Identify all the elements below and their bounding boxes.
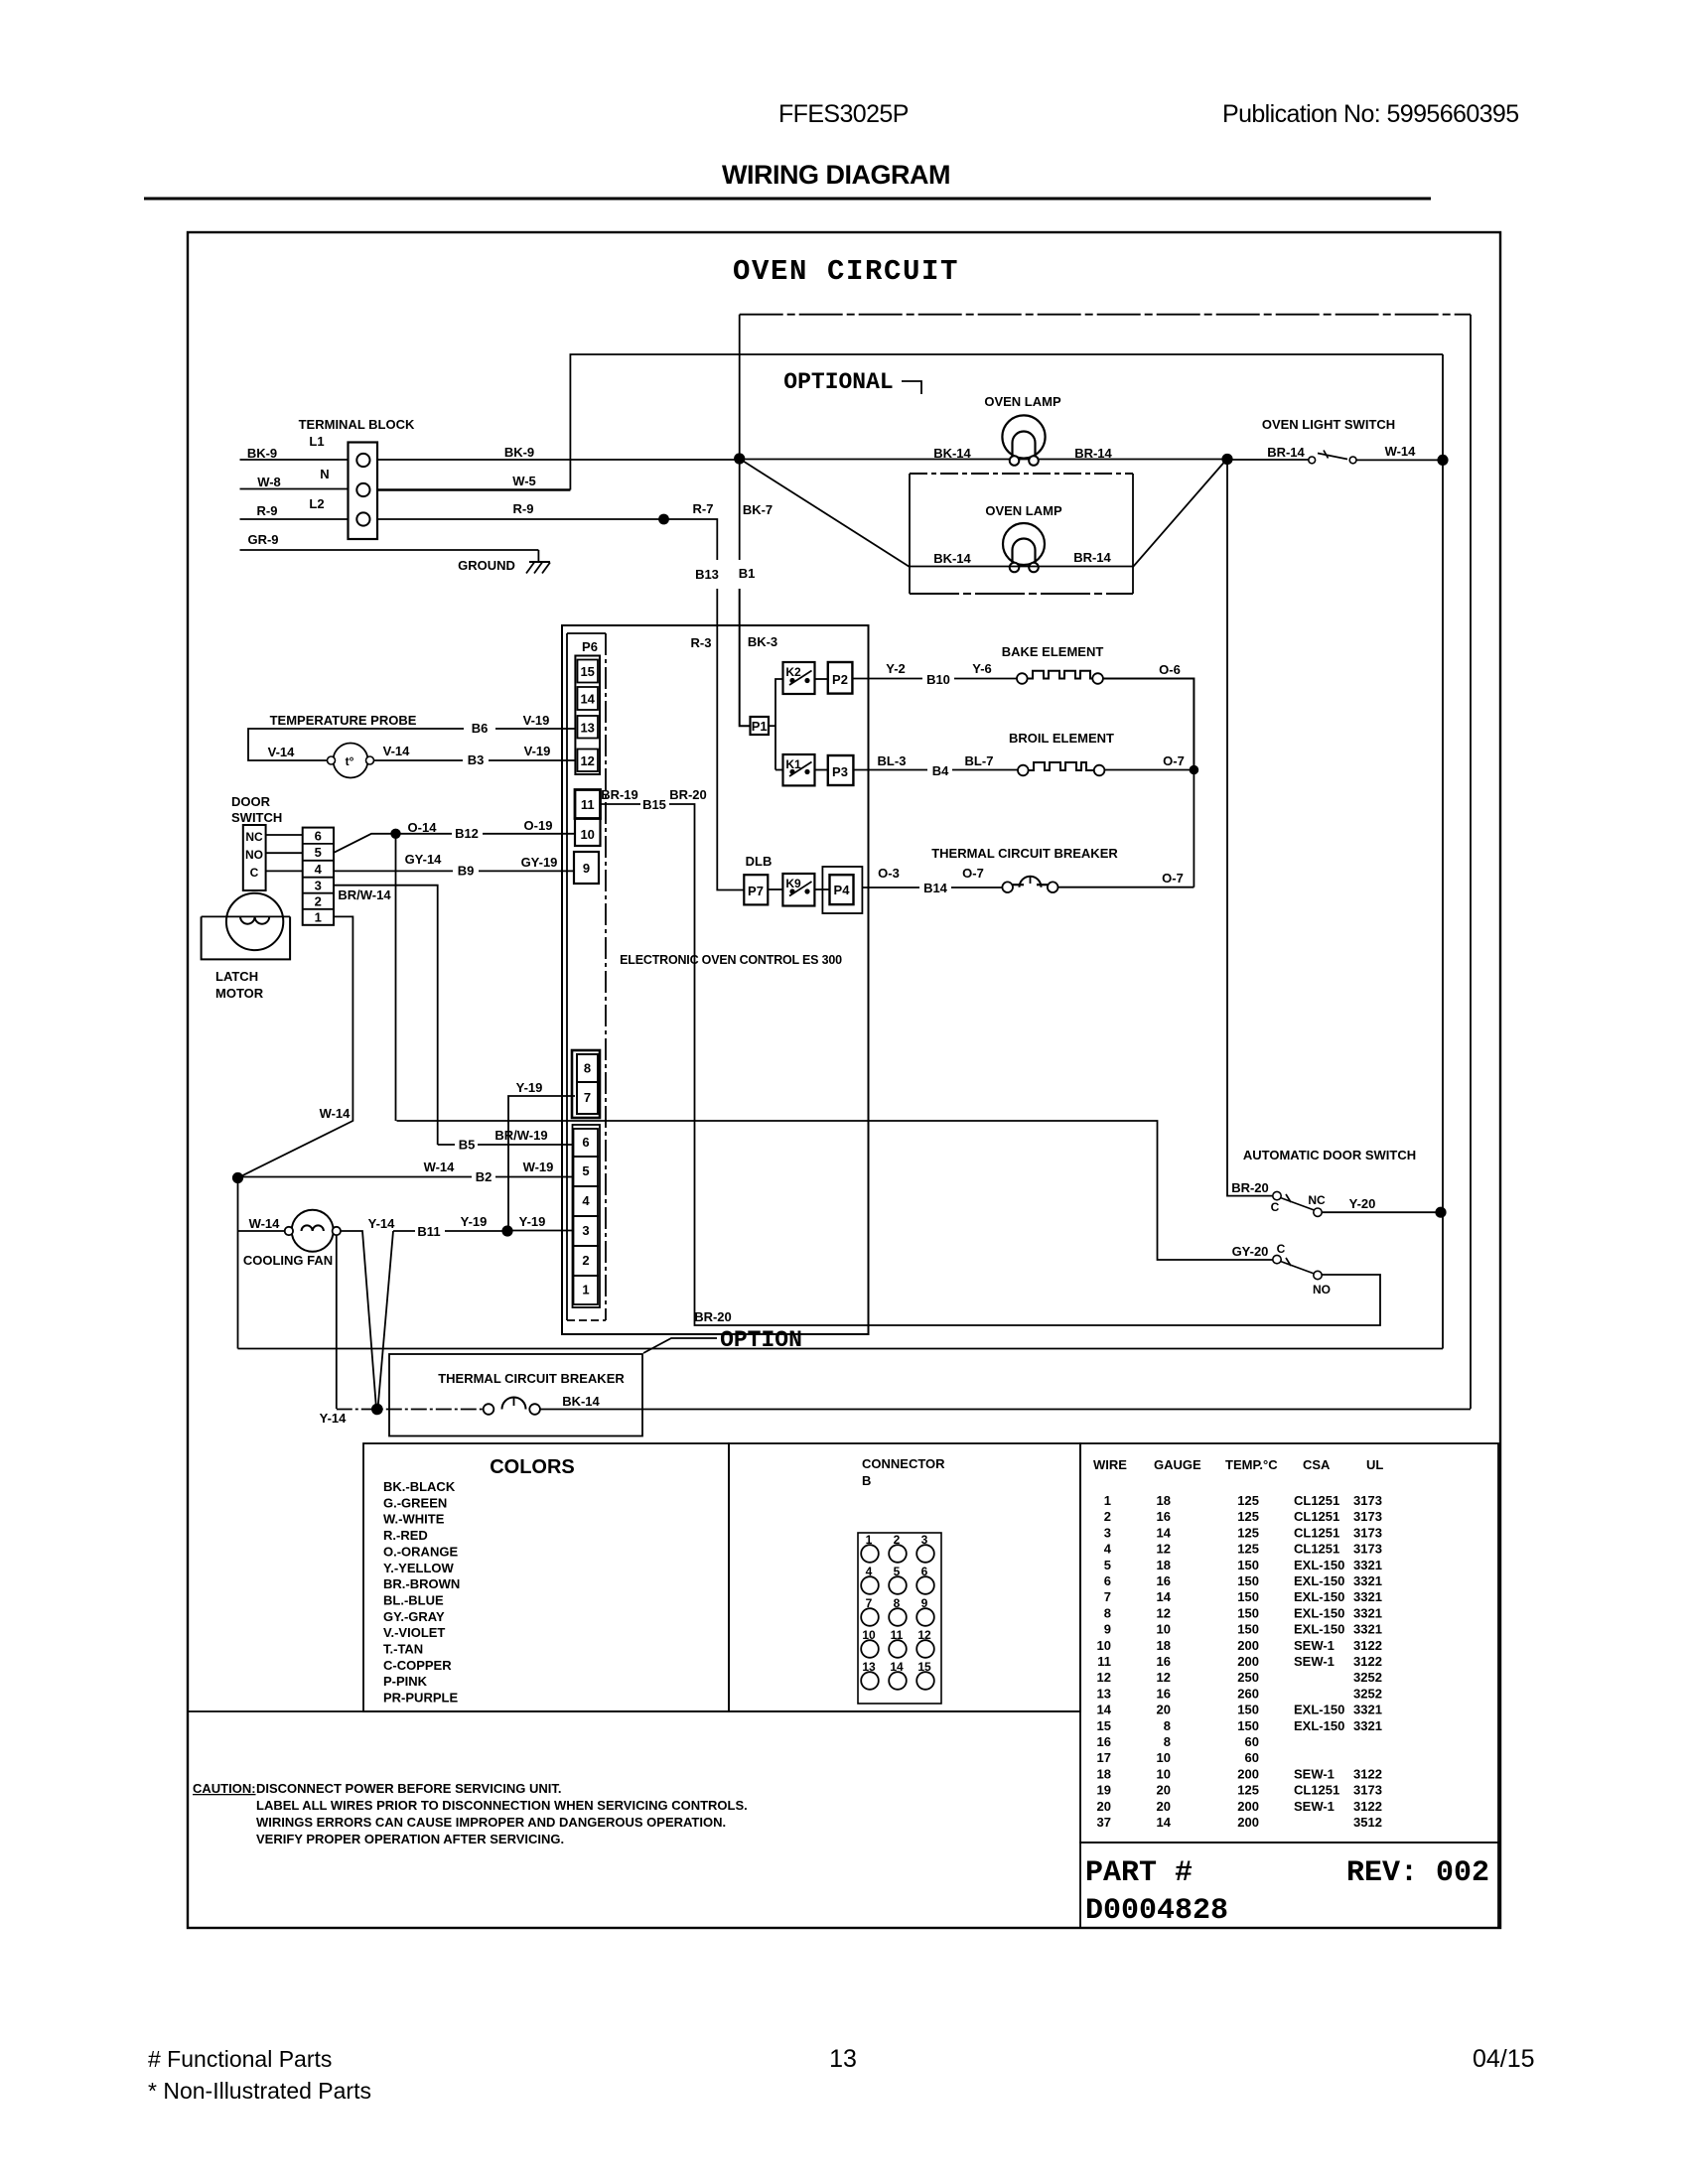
svg-text:Publication No: 5995660395: Publication No: 5995660395 (1222, 100, 1519, 128)
svg-text:14: 14 (1157, 1525, 1172, 1540)
svg-text:P2: P2 (832, 672, 848, 687)
svg-text:t°: t° (346, 754, 354, 768)
relay connector P7 (744, 875, 768, 904)
svg-text:B12: B12 (455, 826, 479, 841)
wire W-14 right trunk (1442, 354, 1444, 1349)
svg-text:COLORS: COLORS (490, 1456, 575, 1478)
svg-text:10: 10 (1097, 1638, 1111, 1653)
svg-text:Y.-YELLOW: Y.-YELLOW (383, 1561, 455, 1575)
svg-text:Y-14: Y-14 (368, 1216, 396, 1231)
svg-text:BK-9: BK-9 (247, 446, 277, 461)
svg-text:3122: 3122 (1353, 1654, 1382, 1669)
svg-text:2: 2 (582, 1253, 589, 1268)
svg-text:GY-14: GY-14 (405, 852, 443, 867)
wire GY-20 feed from door switch circuit (397, 1121, 1273, 1260)
svg-text:B14: B14 (923, 881, 948, 895)
svg-text:THERMAL CIRCUIT BREAKER: THERMAL CIRCUIT BREAKER (438, 1371, 625, 1386)
svg-text:60: 60 (1245, 1734, 1259, 1749)
wire W-14 to cooling fan (238, 1216, 285, 1231)
svg-text:BR-20: BR-20 (669, 787, 707, 802)
svg-text:BROIL ELEMENT: BROIL ELEMENT (1009, 731, 1114, 746)
OPTION loop right edge wire (1470, 315, 1472, 1409)
door switch (231, 794, 282, 890)
wire O-14 to connector B12 (400, 833, 452, 835)
svg-text:SEW-1: SEW-1 (1294, 1638, 1335, 1653)
svg-text:18: 18 (1157, 1638, 1171, 1653)
svg-text:EXL-150: EXL-150 (1294, 1558, 1344, 1572)
door switch connector strip pins 6-1 (303, 828, 334, 925)
svg-text:60: 60 (1245, 1750, 1259, 1765)
svg-text:BK-14: BK-14 (933, 551, 971, 566)
wire BR/W-14 from pin 3 (334, 886, 438, 1145)
svg-text:14: 14 (1157, 1589, 1172, 1604)
svg-text:150: 150 (1237, 1703, 1259, 1717)
relay K2 bake (783, 662, 815, 694)
svg-text:B10: B10 (926, 672, 950, 687)
automatic door switch (1231, 1148, 1416, 1297)
wire Y-19 to connector B11 (393, 1230, 415, 1232)
wire K2 to P2 (815, 678, 828, 680)
svg-text:UL: UL (1366, 1457, 1383, 1472)
svg-text:18: 18 (1157, 1493, 1171, 1508)
wire GY-19 from B9 to P6 pin 9 (479, 855, 574, 871)
P6 pins 8-7 group outline (572, 1050, 600, 1118)
svg-text:O-3: O-3 (878, 866, 900, 881)
wire Y-14 from fan to V branch (341, 1216, 395, 1409)
P6 pin 5 (574, 1157, 599, 1186)
svg-text:CAUTION:: CAUTION: (193, 1781, 256, 1796)
svg-text:20: 20 (1157, 1703, 1171, 1717)
svg-text:9: 9 (1104, 1622, 1111, 1637)
svg-text:12: 12 (1097, 1670, 1111, 1685)
svg-text:125: 125 (1237, 1525, 1259, 1540)
svg-text:3173: 3173 (1353, 1542, 1382, 1557)
wire O-7 node down to thermal circuit breaker (1193, 770, 1195, 887)
svg-text:1: 1 (1104, 1493, 1111, 1508)
svg-text:OPTIONAL: OPTIONAL (783, 369, 893, 395)
svg-text:O-6: O-6 (1159, 662, 1181, 677)
svg-text:3: 3 (315, 879, 322, 893)
svg-text:150: 150 (1237, 1718, 1259, 1733)
svg-text:Y-19: Y-19 (461, 1214, 488, 1229)
svg-text:CONNECTOR: CONNECTOR (862, 1456, 945, 1471)
svg-text:4: 4 (582, 1193, 590, 1208)
svg-text:200: 200 (1237, 1799, 1259, 1814)
svg-text:BR-20: BR-20 (694, 1309, 732, 1324)
svg-text:BR-20: BR-20 (1231, 1180, 1269, 1195)
P6 pin 10 (575, 819, 601, 847)
wire gauge table box (1080, 1443, 1498, 1843)
svg-text:R-7: R-7 (693, 501, 714, 516)
svg-text:R.-RED: R.-RED (383, 1528, 428, 1543)
svg-text:P4: P4 (834, 883, 851, 897)
svg-text:LABEL ALL WIRES PRIOR TO DISCO: LABEL ALL WIRES PRIOR TO DISCONNECTION W… (256, 1798, 748, 1813)
bake element (1002, 644, 1104, 684)
svg-text:150: 150 (1237, 1558, 1259, 1572)
wire O-14 diagonal from pin 5 (334, 820, 437, 853)
broil element (1009, 731, 1114, 775)
wire Y-14 fan drop leg (336, 1235, 338, 1409)
svg-text:B13: B13 (695, 567, 719, 582)
node Y-19 junction at pin 3 (501, 1225, 512, 1236)
node Y-14 junction (371, 1404, 383, 1416)
svg-text:Y-6: Y-6 (972, 661, 992, 676)
svg-text:20: 20 (1157, 1783, 1171, 1798)
wire W-19 from B2 to P6 pin 5 (495, 1160, 574, 1177)
wire R-3 from connector B13 down to relay P7 (691, 589, 745, 890)
wire O-7 from B14 to thermal circuit breaker (951, 866, 1002, 887)
thermal circuit breaker (931, 846, 1118, 892)
wire BK-9 from supply L1 to terminal block (240, 446, 349, 461)
svg-text:ELECTRONIC OVEN CONTROL ES 300: ELECTRONIC OVEN CONTROL ES 300 (620, 953, 842, 967)
relay contact P2 (828, 662, 853, 694)
svg-text:5: 5 (315, 845, 322, 860)
svg-text:BK-3: BK-3 (748, 634, 777, 649)
wire Y-19 junction to P6 pin 3 (507, 1214, 574, 1231)
svg-text:BR-19: BR-19 (601, 787, 638, 802)
svg-text:BR/W-19: BR/W-19 (494, 1128, 547, 1143)
svg-text:13: 13 (829, 2045, 857, 2073)
svg-text:L2: L2 (309, 496, 324, 511)
svg-text:THERMAL CIRCUIT BREAKER: THERMAL CIRCUIT BREAKER (931, 846, 1118, 861)
svg-text:T.-TAN: T.-TAN (383, 1642, 423, 1657)
svg-text:3173: 3173 (1353, 1493, 1382, 1508)
connector P6 strip outline (567, 633, 606, 1320)
wire BK-14 from breaker to option loop (540, 1409, 1471, 1411)
svg-text:NC: NC (1308, 1193, 1326, 1207)
wire K1 to P3 (815, 769, 828, 771)
oven lamp 1 (984, 394, 1061, 466)
svg-text:V-14: V-14 (383, 744, 411, 758)
svg-text:WIRING DIAGRAM: WIRING DIAGRAM (722, 160, 950, 190)
node W-14 junction (232, 1172, 243, 1183)
svg-text:OVEN LIGHT SWITCH: OVEN LIGHT SWITCH (1262, 417, 1395, 432)
svg-text:DISCONNECT POWER BEFORE SERVIC: DISCONNECT POWER BEFORE SERVICING UNIT. (256, 1781, 561, 1796)
svg-text:FFES3025P: FFES3025P (778, 100, 909, 128)
P6 pin 4 (574, 1186, 599, 1216)
svg-text:7: 7 (584, 1090, 591, 1105)
svg-text:TEMP.°C: TEMP.°C (1225, 1457, 1278, 1472)
svg-text:150: 150 (1237, 1573, 1259, 1588)
svg-text:19: 19 (1097, 1783, 1111, 1798)
wire Y-19 V branch up to B11 (378, 1231, 394, 1409)
P6 pin 9 (574, 852, 599, 884)
wire W-14 down-run to bottom rail (237, 1178, 239, 1349)
svg-text:3321: 3321 (1353, 1703, 1382, 1717)
svg-text:C: C (1271, 1200, 1280, 1214)
svg-text:12: 12 (1157, 1670, 1171, 1685)
svg-text:EXL-150: EXL-150 (1294, 1605, 1344, 1620)
svg-text:TERMINAL BLOCK: TERMINAL BLOCK (299, 417, 415, 432)
svg-text:P1: P1 (752, 719, 768, 734)
svg-text:200: 200 (1237, 1815, 1259, 1830)
wire Y-19 riser from P6 pin 7 (508, 1080, 575, 1231)
svg-text:250: 250 (1237, 1670, 1259, 1685)
wire Y-2 from P2 to connector B10 (852, 661, 922, 679)
relay contact P3 (828, 755, 854, 785)
svg-text:16: 16 (1157, 1573, 1171, 1588)
wire GR-9 ground lead (240, 532, 539, 562)
cooling fan motor (243, 1210, 341, 1268)
svg-text:MOTOR: MOTOR (215, 986, 264, 1001)
svg-text:125: 125 (1237, 1542, 1259, 1557)
svg-text:1: 1 (582, 1283, 589, 1297)
svg-text:12: 12 (1157, 1542, 1171, 1557)
svg-text:R-3: R-3 (691, 635, 712, 650)
svg-text:K9: K9 (785, 877, 801, 890)
svg-text:6: 6 (1104, 1573, 1111, 1588)
svg-text:B11: B11 (417, 1224, 440, 1239)
wire BL-3 from P3 to connector B4 (853, 753, 927, 770)
svg-text:6: 6 (315, 829, 322, 844)
svg-text:TEMPERATURE PROBE: TEMPERATURE PROBE (270, 713, 417, 728)
wire BK-14 / BR-14 through lamp 2 (910, 550, 1133, 567)
wire R-7 to connector B13 (664, 501, 718, 560)
svg-text:13: 13 (1097, 1686, 1111, 1701)
svg-text:Y-19: Y-19 (519, 1214, 546, 1229)
svg-text:EXL-150: EXL-150 (1294, 1573, 1344, 1588)
option thermal circuit breaker box (389, 1354, 642, 1436)
svg-text:BR.-BROWN: BR.-BROWN (383, 1576, 460, 1591)
svg-text:B2: B2 (476, 1169, 492, 1184)
svg-text:C: C (250, 866, 259, 880)
wire BK-14 lamp feed with labels (740, 446, 1309, 461)
P6 pins 6-1 group outline (573, 1125, 601, 1307)
svg-text:O-7: O-7 (1163, 753, 1185, 768)
svg-text:3173: 3173 (1353, 1525, 1382, 1540)
oven lamp 2 (985, 503, 1062, 572)
svg-text:D0004828: D0004828 (1085, 1894, 1228, 1928)
terminal block TB1 (299, 417, 415, 539)
svg-text:37: 37 (1097, 1815, 1111, 1830)
wire O-7 from thermal circuit breaker to broil node (1058, 871, 1195, 887)
wire BK-7 optional-box top edge (739, 315, 741, 459)
svg-text:BK-14: BK-14 (933, 446, 971, 461)
title underline rule (144, 198, 1431, 201)
svg-text:BK.-BLACK: BK.-BLACK (383, 1479, 456, 1494)
svg-text:W-5: W-5 (512, 474, 536, 488)
P6 pin 12 (578, 750, 599, 772)
OPTIONAL label with leader (783, 369, 921, 395)
svg-text:16: 16 (1097, 1734, 1111, 1749)
svg-text:150: 150 (1237, 1589, 1259, 1604)
svg-text:REV: 002: REV: 002 (1346, 1856, 1489, 1890)
svg-text:P-PINK: P-PINK (383, 1674, 428, 1689)
wire BK-9 from terminal block to node BK junction (377, 445, 740, 460)
svg-text:SWITCH: SWITCH (231, 810, 282, 825)
svg-text:150: 150 (1237, 1622, 1259, 1637)
svg-text:O-7: O-7 (962, 866, 984, 881)
svg-text:BR-14: BR-14 (1073, 550, 1111, 565)
svg-text:13: 13 (580, 721, 594, 736)
svg-text:5: 5 (582, 1163, 589, 1178)
svg-text:7: 7 (1104, 1589, 1111, 1604)
svg-text:CL1251: CL1251 (1294, 1493, 1339, 1508)
colors legend box (363, 1443, 729, 1711)
relay K9 DLB (782, 874, 814, 906)
wire Y-6 from B10 to bake element (954, 661, 1017, 679)
svg-text:20: 20 (1157, 1799, 1171, 1814)
latch motor (202, 893, 291, 1001)
svg-text:B4: B4 (932, 763, 949, 778)
svg-text:W-14: W-14 (320, 1106, 352, 1121)
svg-text:OVEN LAMP: OVEN LAMP (985, 503, 1062, 518)
svg-text:3321: 3321 (1353, 1718, 1382, 1733)
wire V-19 from B6 to P6 pin 13 (495, 713, 575, 729)
svg-text:2: 2 (1104, 1509, 1111, 1524)
svg-text:B9: B9 (458, 864, 475, 879)
svg-text:3173: 3173 (1353, 1509, 1382, 1524)
wire O-19 from B12 to P6 pin 10 (483, 818, 575, 834)
svg-text:GY-19: GY-19 (521, 855, 558, 870)
svg-text:B6: B6 (472, 721, 489, 736)
wire door switch NC to pin 6 (266, 834, 303, 836)
P6 pin 7 (577, 1082, 598, 1114)
svg-text:3321: 3321 (1353, 1558, 1382, 1572)
P6 pin 8 (577, 1054, 598, 1082)
svg-text:W.-WHITE: W.-WHITE (383, 1512, 445, 1527)
wire Y-19 from B11 to node (445, 1214, 502, 1231)
ground symbol (458, 558, 550, 574)
svg-text:P6: P6 (582, 639, 598, 654)
svg-text:W-8: W-8 (257, 475, 281, 489)
svg-text:* Non-Illustrated Parts: * Non-Illustrated Parts (148, 2078, 371, 2104)
svg-text:R-9: R-9 (513, 501, 534, 516)
svg-text:C: C (1277, 1242, 1286, 1256)
svg-text:G.-GREEN: G.-GREEN (383, 1495, 447, 1510)
svg-text:Y-14: Y-14 (320, 1411, 348, 1426)
wire relay branch riser (775, 679, 783, 770)
svg-text:B: B (862, 1473, 871, 1488)
wire V-19 from B3 to P6 pin 12 (489, 744, 575, 760)
wire BK-3 from connector B1 down to relay P1 (740, 589, 777, 726)
svg-text:L1: L1 (309, 434, 324, 449)
svg-text:12: 12 (1157, 1605, 1171, 1620)
wire O-6 from bake element to broil node (1103, 662, 1195, 765)
svg-text:BK-14: BK-14 (562, 1394, 600, 1409)
svg-text:3252: 3252 (1353, 1670, 1382, 1685)
svg-text:B15: B15 (642, 797, 666, 812)
wire O-7 broil element to node (1104, 753, 1194, 770)
svg-text:260: 260 (1237, 1686, 1259, 1701)
wire W-5 from terminal block to riser (377, 474, 570, 490)
svg-text:3122: 3122 (1353, 1799, 1382, 1814)
svg-text:WIRE: WIRE (1093, 1457, 1127, 1472)
P6 pin 2 (574, 1246, 599, 1276)
svg-text:V-19: V-19 (524, 744, 551, 758)
wire W-14 bottom rail to trunk (238, 1348, 1444, 1350)
svg-text:Y-20: Y-20 (1349, 1196, 1376, 1211)
svg-text:20: 20 (1097, 1799, 1111, 1814)
svg-text:11: 11 (581, 797, 595, 812)
svg-text:Y-19: Y-19 (516, 1080, 543, 1095)
svg-text:GY.-GRAY: GY.-GRAY (383, 1609, 445, 1624)
svg-text:PR-PURPLE: PR-PURPLE (383, 1691, 458, 1706)
svg-text:V.-VIOLET: V.-VIOLET (383, 1625, 445, 1640)
relay K1 broil (783, 754, 815, 785)
optional oven lamp 2 enclosure box (910, 473, 1133, 475)
node lamp circuit junction (1221, 454, 1232, 465)
svg-text:OVEN CIRCUIT: OVEN CIRCUIT (733, 255, 959, 288)
caution note box (188, 1711, 1080, 1846)
svg-text:5: 5 (1104, 1558, 1111, 1572)
svg-text:GR-9: GR-9 (247, 532, 278, 547)
svg-text:4: 4 (315, 862, 323, 877)
oven light switch (1262, 417, 1395, 464)
svg-text:150: 150 (1237, 1605, 1259, 1620)
wire BK-7 / B1 from junction down to connector B1 (740, 459, 773, 560)
wire BR-20 trunk from lamp node to automatic door switch (1227, 460, 1273, 1196)
svg-text:PART #: PART # (1085, 1856, 1193, 1890)
wire V-14 probe left lead (248, 729, 464, 760)
P6 pin 13 (578, 716, 599, 739)
svg-text:8: 8 (1104, 1605, 1111, 1620)
svg-text:CL1251: CL1251 (1294, 1509, 1339, 1524)
svg-text:BL-7: BL-7 (965, 753, 994, 768)
svg-text:125: 125 (1237, 1493, 1259, 1508)
node broil junction (1190, 765, 1199, 775)
electronic oven control ES 300 outline (562, 625, 869, 1334)
svg-text:10: 10 (580, 827, 594, 842)
svg-text:O-14: O-14 (408, 820, 438, 835)
wire W-14 to connector B2 (238, 1160, 473, 1177)
node O-14 junction (390, 829, 400, 839)
svg-text:EXL-150: EXL-150 (1294, 1589, 1344, 1604)
svg-text:DLB: DLB (746, 854, 773, 869)
P6 pin 3 (574, 1216, 599, 1246)
svg-text:P3: P3 (832, 764, 848, 779)
wire BR/W to connector B5 (438, 1144, 455, 1146)
svg-text:3252: 3252 (1353, 1686, 1382, 1701)
P6 pins 15-12 group outline (575, 656, 600, 775)
wire door switch C to pin 4 (266, 870, 303, 872)
wire Y-14 into option breaker (320, 1410, 484, 1427)
svg-text:BR-14: BR-14 (1267, 445, 1305, 460)
wire BR-20 from B15 down and around (669, 787, 1380, 1325)
svg-text:10: 10 (1157, 1750, 1171, 1765)
svg-text:12: 12 (580, 753, 594, 768)
svg-text:CSA: CSA (1303, 1457, 1331, 1472)
svg-text:EXL-150: EXL-150 (1294, 1703, 1344, 1717)
svg-text:1: 1 (315, 910, 322, 925)
svg-text:VERIFY PROPER OPERATION AFTER: VERIFY PROPER OPERATION AFTER SERVICING. (256, 1832, 564, 1846)
svg-text:BR-14: BR-14 (1074, 446, 1112, 461)
temperature probe sensor (270, 713, 417, 778)
svg-text:# Functional Parts: # Functional Parts (148, 2046, 332, 2072)
wire O-3 from P4 to connector B14 (862, 866, 919, 887)
svg-text:CL1251: CL1251 (1294, 1783, 1339, 1798)
svg-text:N: N (320, 467, 329, 481)
svg-text:18: 18 (1157, 1558, 1171, 1572)
svg-text:LATCH: LATCH (215, 969, 258, 984)
svg-text:3512: 3512 (1353, 1815, 1382, 1830)
svg-text:3321: 3321 (1353, 1573, 1382, 1588)
svg-text:04/15: 04/15 (1473, 2045, 1535, 2073)
svg-text:SEW-1: SEW-1 (1294, 1654, 1335, 1669)
P6 pin 14 (578, 687, 599, 710)
svg-text:CL1251: CL1251 (1294, 1542, 1339, 1557)
svg-text:14: 14 (1157, 1815, 1172, 1830)
svg-text:R-9: R-9 (257, 503, 278, 518)
svg-text:GROUND: GROUND (458, 558, 515, 573)
wire Y-20 from NC contact to trunk (1322, 1196, 1438, 1212)
relay connector P1 (751, 717, 770, 735)
svg-text:BL-3: BL-3 (878, 753, 907, 768)
wire diagonal from lamp 2 box to lamp node (1133, 459, 1227, 567)
connector B pinout box (729, 1443, 1080, 1711)
svg-text:K2: K2 (785, 665, 801, 679)
svg-text:3173: 3173 (1353, 1783, 1382, 1798)
